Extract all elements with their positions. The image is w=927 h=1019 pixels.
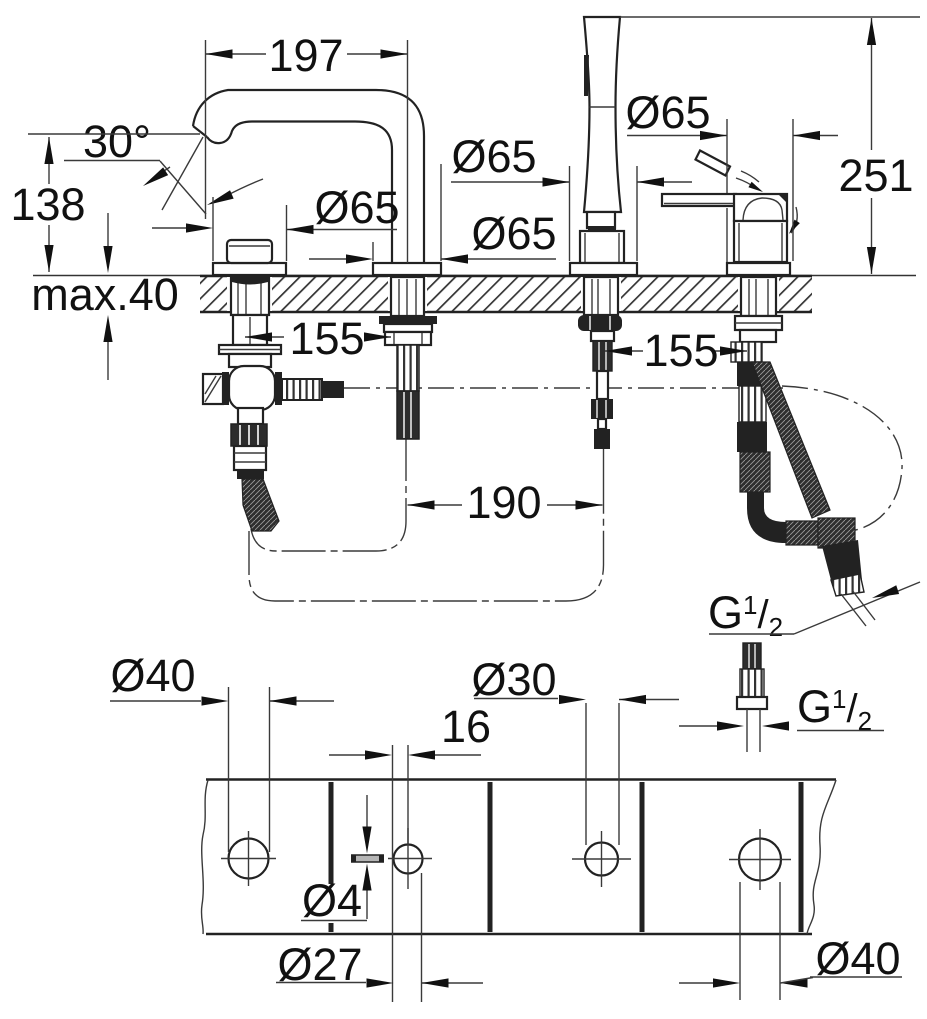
svg-text:30°: 30° [83, 116, 151, 167]
svg-text:Ø65: Ø65 [625, 87, 710, 138]
svg-text:16: 16 [441, 701, 491, 752]
svg-text:Ø65: Ø65 [451, 131, 536, 182]
svg-text:155: 155 [289, 313, 364, 364]
svg-text:Ø30: Ø30 [471, 654, 556, 705]
svg-text:197: 197 [268, 30, 343, 81]
svg-text:251: 251 [838, 150, 913, 201]
svg-text:Ø40: Ø40 [110, 650, 195, 701]
svg-text:Ø65: Ø65 [471, 208, 556, 259]
svg-text:138: 138 [10, 179, 85, 230]
svg-text:max.40: max.40 [31, 269, 179, 320]
svg-text:Ø65: Ø65 [314, 182, 399, 233]
svg-text:190: 190 [466, 477, 541, 528]
svg-text:Ø4: Ø4 [302, 875, 362, 926]
svg-text:155: 155 [643, 325, 718, 376]
